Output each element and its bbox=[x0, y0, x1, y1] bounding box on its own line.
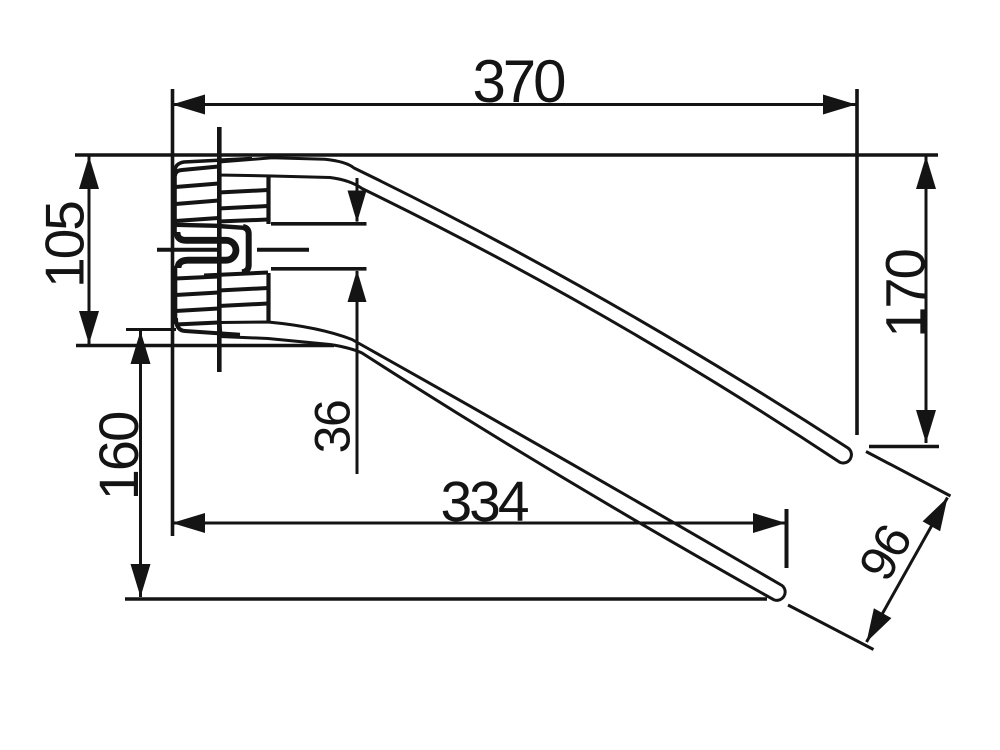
arrow 96 upper bbox=[923, 498, 948, 532]
lower coil bottom exit left bbox=[176, 318, 240, 335]
extension line coil bottom reference bbox=[76, 344, 334, 347]
arrow 160 up bbox=[131, 331, 151, 364]
upper coil wire top edge left bbox=[175, 159, 252, 172]
svg-text:170: 170 bbox=[874, 250, 937, 337]
upper tine wire bbox=[219, 158, 851, 463]
dimension 36 extension line lower bbox=[271, 267, 367, 271]
dimension 36 lower segment bbox=[356, 271, 359, 474]
upper coil turn 3 right bbox=[219, 206, 269, 209]
dimension 36 extension line upper bbox=[271, 222, 367, 226]
arrow 160 down bbox=[131, 564, 151, 597]
lower coil turn 3 left bbox=[176, 309, 219, 312]
dimension line 96 diagonal bbox=[867, 498, 948, 643]
upper coil turn 3 left bbox=[176, 201, 219, 205]
upper coil turn 1 left bbox=[175, 167, 219, 177]
lower coil turn 3 right bbox=[219, 304, 269, 307]
extension line vertical left x=172 bbox=[171, 89, 175, 536]
svg-text:370: 370 bbox=[472, 48, 565, 115]
upper coil left edge bbox=[173, 168, 177, 235]
arrow 334 right bbox=[753, 513, 786, 533]
lower coil turn 1 left bbox=[176, 277, 219, 279]
lower coil right edge bbox=[266, 273, 270, 321]
dimension line 370 bbox=[172, 103, 856, 106]
upper coil turn 4 right bbox=[219, 220, 269, 222]
lower coil left edge bbox=[173, 266, 177, 324]
arrow 96 lower bbox=[867, 608, 892, 642]
dimension line 334 bbox=[172, 522, 786, 525]
svg-text:105: 105 bbox=[34, 202, 96, 288]
arrow 370 left bbox=[172, 95, 205, 115]
arrow 36 up bbox=[348, 270, 367, 302]
centerline horizontal dash left bbox=[157, 248, 221, 252]
extension line 96 lower diagonal bbox=[788, 605, 874, 650]
upper coil bottom edge right bbox=[218, 226, 244, 228]
extension line bottom (lower tine tip reference) bbox=[125, 597, 767, 600]
svg-text:36: 36 bbox=[305, 401, 361, 454]
arrow 105 down bbox=[79, 311, 99, 344]
centerline vertical through coil bbox=[217, 127, 222, 372]
lower tine wire bbox=[220, 322, 785, 600]
extension line 160-top short bbox=[126, 328, 176, 331]
upper coil turn 2 left bbox=[176, 184, 219, 188]
dimension line 170 bbox=[925, 156, 928, 443]
extension line top (coil top reference) bbox=[75, 153, 938, 157]
svg-text:334: 334 bbox=[440, 470, 528, 534]
dimension line 105 bbox=[88, 156, 91, 344]
middle hairpin loop wire bbox=[177, 232, 236, 268]
upper coil right edge bbox=[266, 175, 270, 224]
extension line vertical right x=857 bbox=[855, 89, 859, 435]
extension line 170-bottom short bbox=[869, 445, 939, 448]
lower coil turn 4 left bbox=[176, 323, 219, 325]
extension line vertical 334-right bbox=[785, 509, 789, 568]
lower coil turn 2 left bbox=[176, 293, 219, 296]
upper coil turn 4 left bbox=[176, 218, 219, 221]
lower coil turn 2 right bbox=[219, 288, 269, 291]
arrow 105 up bbox=[79, 156, 99, 189]
svg-text:160: 160 bbox=[87, 413, 150, 500]
centerline horizontal dash right bbox=[257, 248, 309, 252]
arrow 36 down bbox=[348, 191, 367, 223]
arrow 370 right bbox=[823, 95, 856, 115]
upper coil bottom edge left bbox=[176, 225, 219, 226]
extension line 96 upper diagonal bbox=[866, 452, 951, 497]
arrow 334 left bbox=[172, 513, 205, 533]
arrow 170 down bbox=[916, 410, 936, 443]
lower coil turn 1 right (top) bbox=[204, 273, 268, 276]
dimension line 160 bbox=[139, 331, 142, 597]
coil cross connector wire bbox=[242, 227, 249, 272]
upper coil turn 2 right bbox=[219, 190, 269, 193]
dimension 36 upper segment bbox=[356, 178, 359, 222]
arrow 170 up bbox=[916, 156, 936, 189]
